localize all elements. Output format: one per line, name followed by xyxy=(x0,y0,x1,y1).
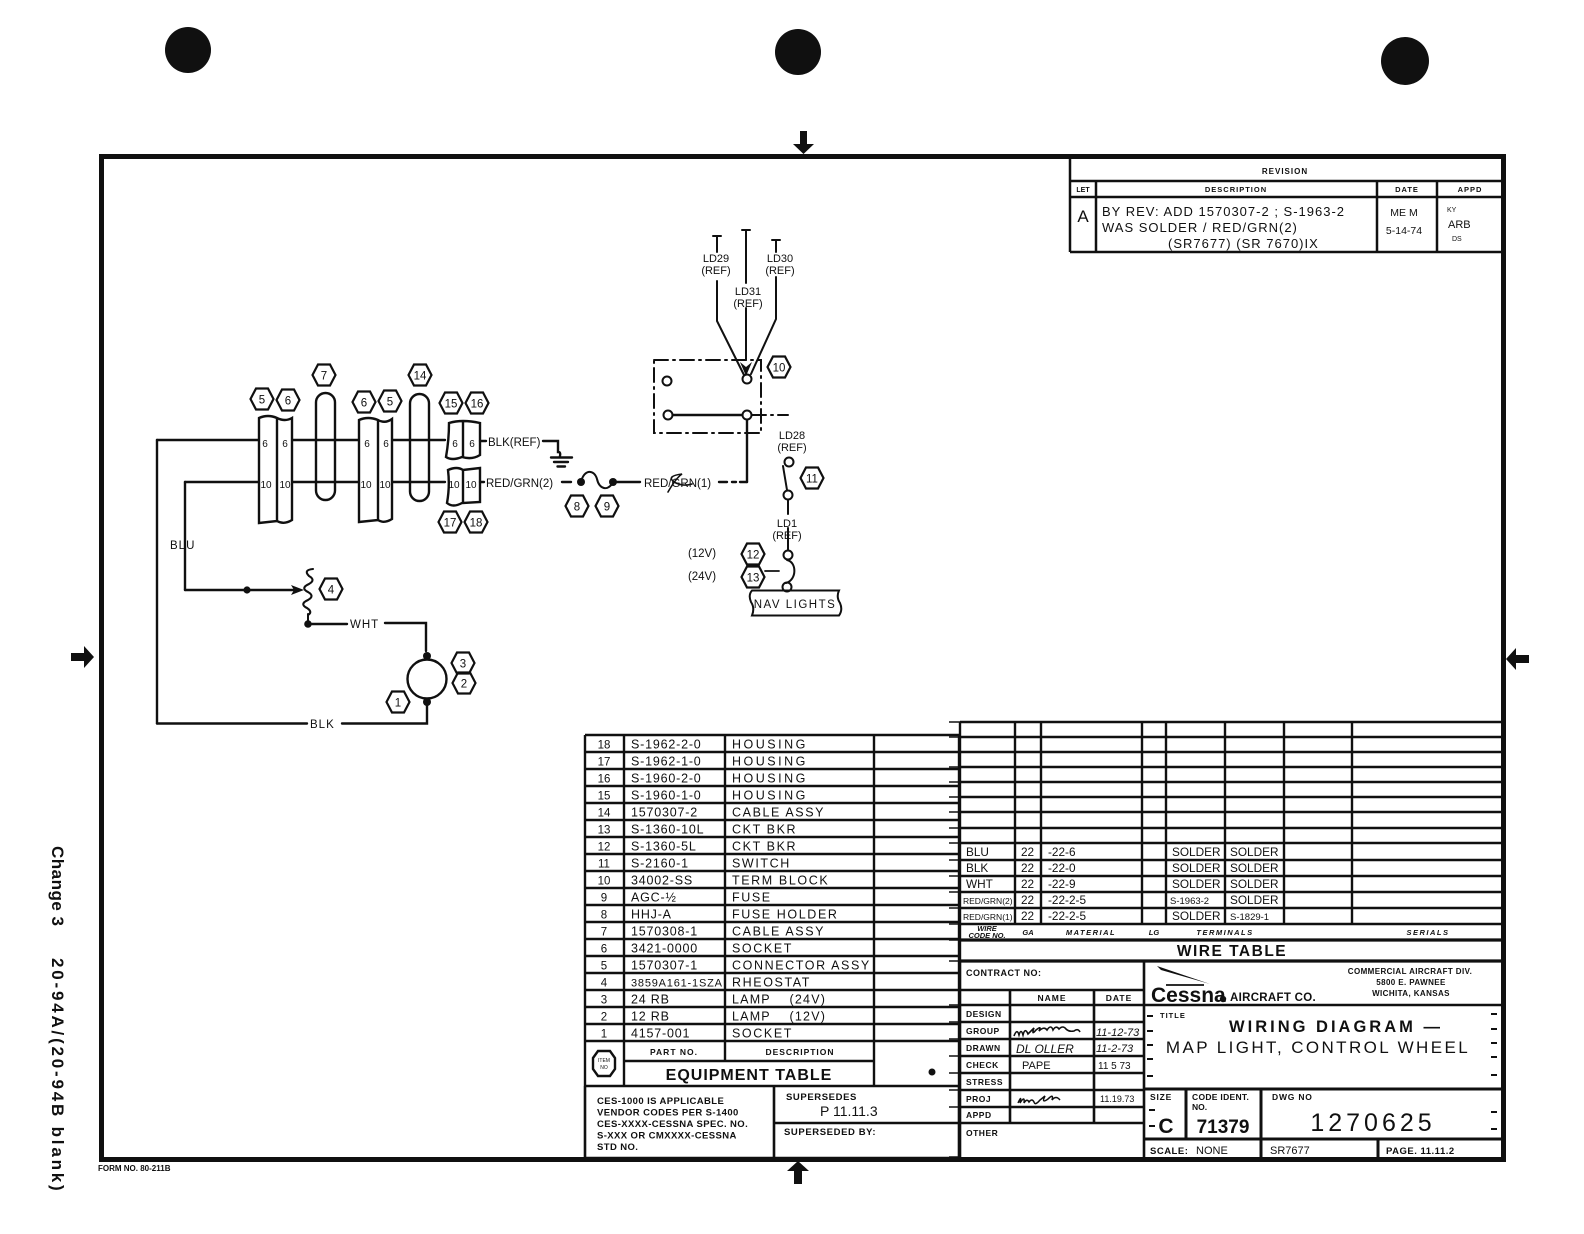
svg-text:-22-0: -22-0 xyxy=(1048,861,1076,875)
svg-text:VENDOR CODES PER S-1400: VENDOR CODES PER S-1400 xyxy=(597,1108,739,1119)
svg-text:SUPERSEDES: SUPERSEDES xyxy=(786,1092,857,1103)
svg-text:BY REV: ADD 1570307-2 ; S-1963: BY REV: ADD 1570307-2 ; S-1963-2 xyxy=(1102,204,1345,219)
svg-text:6: 6 xyxy=(452,439,458,450)
terminal block 10 (dash-dot outline) xyxy=(654,360,761,433)
svg-text:LD29: LD29 xyxy=(703,253,729,265)
svg-text:12: 12 xyxy=(598,842,611,854)
svg-text:12: 12 xyxy=(747,550,760,562)
svg-text:-22-6: -22-6 xyxy=(1048,845,1076,859)
wire up to terminal block xyxy=(746,420,748,482)
registration dot right xyxy=(1381,37,1429,85)
svg-text:7: 7 xyxy=(601,927,607,939)
svg-text:8: 8 xyxy=(574,502,580,514)
svg-text:7: 7 xyxy=(321,371,327,383)
svg-text:EQUIPMENT TABLE: EQUIPMENT TABLE xyxy=(666,1067,833,1084)
svg-text:11: 11 xyxy=(598,859,610,871)
svg-text:STRESS: STRESS xyxy=(966,1077,1003,1087)
revision table grid xyxy=(1070,157,1504,252)
splice 8/9 xyxy=(577,478,585,486)
svg-text:22: 22 xyxy=(1021,893,1034,907)
bottom alignment arrow xyxy=(787,1161,809,1184)
hex 16 xyxy=(466,393,489,414)
svg-text:APPD: APPD xyxy=(1458,185,1483,194)
svg-text:TERM BLOCK: TERM BLOCK xyxy=(732,874,829,888)
svg-text:DS: DS xyxy=(1452,236,1462,243)
svg-text:REVISION: REVISION xyxy=(1262,167,1308,176)
svg-text:SWITCH: SWITCH xyxy=(732,857,791,871)
wire LD29 xyxy=(713,236,744,375)
svg-text:LAMP (12V): LAMP (12V) xyxy=(732,1010,826,1024)
svg-text:DESIGN: DESIGN xyxy=(966,1009,1002,1019)
svg-text:PAPE: PAPE xyxy=(1022,1060,1051,1072)
svg-text:SOCKET: SOCKET xyxy=(732,942,793,956)
svg-text:NO: NO xyxy=(600,1065,608,1071)
svg-text:S-1962-1-0: S-1962-1-0 xyxy=(631,755,702,769)
svg-text:10: 10 xyxy=(260,480,272,491)
hex 17 xyxy=(439,512,462,533)
svg-text:SIZE: SIZE xyxy=(1150,1092,1172,1102)
group signature xyxy=(1014,1027,1080,1036)
wire BLU to rheostat xyxy=(185,589,295,591)
ground xyxy=(551,458,572,467)
svg-text:BLK: BLK xyxy=(310,719,335,731)
svg-text:6: 6 xyxy=(282,439,288,450)
svg-text:12 RB: 12 RB xyxy=(631,1010,670,1024)
svg-text:SERIALS: SERIALS xyxy=(1406,928,1449,937)
svg-text:22: 22 xyxy=(1021,909,1034,923)
hex 6b xyxy=(353,392,376,413)
svg-text:6: 6 xyxy=(601,944,607,956)
svg-text:CHECK: CHECK xyxy=(966,1060,999,1070)
svg-text:6: 6 xyxy=(285,396,291,408)
connector P1 bars (items 5/6) xyxy=(259,416,292,523)
hex 5 xyxy=(251,389,274,410)
cable assy 7 capsule xyxy=(316,393,335,500)
svg-text:4: 4 xyxy=(328,585,335,597)
correction scribble over RED/GRN(1) xyxy=(668,474,692,492)
wire table grid xyxy=(960,722,1504,961)
NAV LIGHTS box xyxy=(750,591,842,616)
svg-text:CKT BKR: CKT BKR xyxy=(732,823,797,837)
svg-text:AIRCRAFT CO.: AIRCRAFT CO. xyxy=(1230,992,1316,1004)
hex 6 xyxy=(277,390,300,411)
svg-text:MAP LIGHT, CONTROL WHEEL: MAP LIGHT, CONTROL WHEEL xyxy=(1166,1038,1470,1057)
svg-text:24 RB: 24 RB xyxy=(631,993,670,1007)
svg-text:6: 6 xyxy=(364,439,370,450)
svg-text:LG: LG xyxy=(1149,928,1160,937)
svg-text:11-12-73: 11-12-73 xyxy=(1096,1027,1140,1039)
hex 5b xyxy=(379,391,402,412)
wire WHT xyxy=(312,623,347,625)
wire left rail BLK return xyxy=(156,440,158,724)
svg-text:HOUSING: HOUSING xyxy=(732,755,808,769)
hex 15 xyxy=(440,393,463,414)
svg-text:RED/GRN(1): RED/GRN(1) xyxy=(963,912,1013,922)
arrowhead at terminal xyxy=(740,362,752,376)
svg-text:MATERIAL: MATERIAL xyxy=(1066,928,1116,937)
svg-text:CKT BKR: CKT BKR xyxy=(732,840,797,854)
svg-text:GROUP: GROUP xyxy=(966,1026,1000,1036)
svg-text:ITEM: ITEM xyxy=(598,1058,610,1064)
svg-text:17: 17 xyxy=(444,518,457,530)
svg-text:WHT: WHT xyxy=(966,877,993,891)
svg-text:22: 22 xyxy=(1021,877,1034,891)
svg-text:1570307-2: 1570307-2 xyxy=(631,806,698,820)
svg-text:ARB: ARB xyxy=(1448,219,1471,231)
svg-text:RED/GRN(2): RED/GRN(2) xyxy=(486,478,553,490)
svg-text:LD28: LD28 xyxy=(779,430,805,442)
svg-text:18: 18 xyxy=(598,740,611,752)
svg-text:CODE IDENT.: CODE IDENT. xyxy=(1192,1092,1249,1102)
svg-text:1: 1 xyxy=(395,698,401,710)
equipment table grid xyxy=(585,735,959,1086)
svg-text:S-1829-1: S-1829-1 xyxy=(1230,912,1269,923)
svg-text:S-1962-2-0: S-1962-2-0 xyxy=(631,738,702,752)
svg-text:SOLDER: SOLDER xyxy=(1172,861,1221,875)
svg-text:HHJ-A: HHJ-A xyxy=(631,908,672,922)
svg-text:10: 10 xyxy=(598,876,611,888)
svg-text:LD31: LD31 xyxy=(735,286,761,298)
hex 11 xyxy=(801,468,824,489)
svg-text:S-2160-1: S-2160-1 xyxy=(631,857,689,871)
svg-text:10: 10 xyxy=(448,480,460,491)
svg-text:DESCRIPTION: DESCRIPTION xyxy=(765,1047,834,1057)
hex 7 xyxy=(313,365,336,386)
svg-text:OTHER: OTHER xyxy=(966,1128,998,1138)
proj signature xyxy=(1018,1096,1060,1104)
svg-text:TITLE: TITLE xyxy=(1160,1011,1186,1020)
EQUIPMENT TABLE xyxy=(585,735,959,1158)
junction dot xyxy=(243,586,250,593)
svg-text:RED/GRN(2): RED/GRN(2) xyxy=(963,896,1013,906)
svg-text:SOLDER: SOLDER xyxy=(1172,909,1221,923)
svg-text:SOLDER: SOLDER xyxy=(1230,877,1279,891)
wire pin10 row xyxy=(185,481,445,483)
svg-text:S-1360-5L: S-1360-5L xyxy=(631,840,697,854)
svg-text:-22-2-5: -22-2-5 xyxy=(1048,909,1086,923)
svg-text:9: 9 xyxy=(601,893,607,905)
wire to RED/GRN(1) xyxy=(617,481,640,483)
wire BLU vertical xyxy=(184,482,186,590)
svg-text:1570308-1: 1570308-1 xyxy=(631,925,698,939)
svg-text:(24V): (24V) xyxy=(688,571,716,583)
svg-text:LET: LET xyxy=(1076,187,1090,194)
svg-text:16: 16 xyxy=(598,774,611,786)
svg-text:22: 22 xyxy=(1021,861,1034,875)
housing 15/16 (pin 6) xyxy=(446,421,480,459)
svg-text:10: 10 xyxy=(360,480,372,491)
svg-text:BLK: BLK xyxy=(966,861,988,875)
svg-text:13: 13 xyxy=(598,825,611,837)
svg-text:DL OLLER: DL OLLER xyxy=(1016,1042,1074,1056)
svg-text:SOLDER: SOLDER xyxy=(1172,845,1221,859)
svg-text:C: C xyxy=(1158,1115,1173,1138)
svg-text:PART NO.: PART NO. xyxy=(650,1047,698,1057)
signoff labels xyxy=(966,1009,1003,1138)
vendor notes box xyxy=(585,1086,959,1158)
svg-text:SUPERSEDED BY:: SUPERSEDED BY: xyxy=(784,1127,876,1138)
svg-text:6: 6 xyxy=(383,439,389,450)
svg-text:WAS SOLDER / RED/GRN(2): WAS SOLDER / RED/GRN(2) xyxy=(1102,220,1298,235)
svg-text:(REF): (REF) xyxy=(777,442,806,454)
fuse 12/13 xyxy=(784,551,793,560)
wire LD30 xyxy=(751,240,780,374)
svg-text:5: 5 xyxy=(601,961,607,973)
svg-text:NAME: NAME xyxy=(1037,993,1066,1003)
hex13 pointer xyxy=(765,570,779,572)
switch lever xyxy=(783,466,787,490)
svg-text:COMMERCIAL AIRCRAFT DIV.: COMMERCIAL AIRCRAFT DIV. xyxy=(1348,967,1472,976)
svg-text:6: 6 xyxy=(469,439,475,450)
svg-text:S-1963-2: S-1963-2 xyxy=(1170,896,1209,907)
hex 13 xyxy=(742,567,765,588)
svg-text:HOUSING: HOUSING xyxy=(732,738,808,752)
svg-text:BLU: BLU xyxy=(170,540,195,552)
svg-text:WIRING DIAGRAM —: WIRING DIAGRAM — xyxy=(1229,1018,1443,1036)
svg-text:AGC-½: AGC-½ xyxy=(631,891,677,905)
svg-text:3421-0000: 3421-0000 xyxy=(631,942,698,956)
svg-text:5800 E. PAWNEE: 5800 E. PAWNEE xyxy=(1376,978,1446,987)
svg-text:8: 8 xyxy=(601,910,607,922)
svg-text:PAGE. 11.11.2: PAGE. 11.11.2 xyxy=(1386,1146,1455,1157)
svg-text:DWG NO: DWG NO xyxy=(1272,1092,1313,1102)
lamp 1/2/3 xyxy=(408,660,447,699)
svg-text:CODE NO.: CODE NO. xyxy=(968,931,1005,940)
terminal jumper xyxy=(673,414,742,416)
hex 1 xyxy=(387,692,410,713)
svg-text:SCALE:: SCALE: xyxy=(1150,1146,1188,1157)
cessna logo xyxy=(1151,966,1316,1007)
svg-text:CONNECTOR ASSY: CONNECTOR ASSY xyxy=(732,959,871,973)
wire below switch xyxy=(787,500,789,514)
svg-text:CABLE ASSY: CABLE ASSY xyxy=(732,806,825,820)
svg-text:11: 11 xyxy=(806,474,818,486)
svg-text:SOLDER: SOLDER xyxy=(1230,845,1279,859)
equipment rows text xyxy=(598,738,871,1041)
svg-text:CES-XXXX-CESSNA SPEC. NO.: CES-XXXX-CESSNA SPEC. NO. xyxy=(597,1119,748,1130)
svg-text:A: A xyxy=(1077,207,1089,226)
svg-text:CES-1000 IS APPLICABLE: CES-1000 IS APPLICABLE xyxy=(597,1096,724,1107)
svg-text:NONE: NONE xyxy=(1196,1145,1228,1157)
label BLK(REF) xyxy=(480,440,486,442)
svg-text:18: 18 xyxy=(470,518,483,530)
junction dot wiper out xyxy=(304,620,312,628)
svg-text:DRAWN: DRAWN xyxy=(966,1043,1001,1053)
TITLE BLOCK xyxy=(960,961,1504,1159)
svg-text:10: 10 xyxy=(279,480,291,491)
terminal block posts xyxy=(663,377,672,386)
svg-text:FUSE HOLDER: FUSE HOLDER xyxy=(732,908,839,922)
svg-text:S-XXX OR CMXXXX-CESSNA: S-XXX OR CMXXXX-CESSNA xyxy=(597,1131,737,1142)
svg-text:11-2-73: 11-2-73 xyxy=(1096,1043,1134,1055)
svg-text:RHEOSTAT: RHEOSTAT xyxy=(732,976,811,990)
lamp bottom dot xyxy=(423,698,431,706)
switch 11 xyxy=(785,458,794,467)
svg-text:NAV LIGHTS: NAV LIGHTS xyxy=(754,599,837,611)
title box edge ticks xyxy=(1147,1014,1497,1129)
svg-text:4: 4 xyxy=(601,978,608,990)
svg-text:1570307-1: 1570307-1 xyxy=(631,959,698,973)
svg-text:LD30: LD30 xyxy=(767,253,793,265)
svg-text:Change 3: Change 3 xyxy=(48,846,67,927)
svg-text:10: 10 xyxy=(379,480,391,491)
svg-text:SOLDER: SOLDER xyxy=(1230,861,1279,875)
wire table column headers xyxy=(968,924,1449,940)
svg-text:20-94A/(20-94B blank): 20-94A/(20-94B blank) xyxy=(48,958,67,1193)
svg-text:APPD: APPD xyxy=(966,1110,992,1120)
registration dot left xyxy=(165,27,211,73)
svg-text:22: 22 xyxy=(1021,845,1034,859)
svg-text:P 11.11.3: P 11.11.3 xyxy=(820,1103,878,1119)
svg-text:(REF): (REF) xyxy=(733,298,762,310)
svg-text:BLK(REF): BLK(REF) xyxy=(488,437,541,449)
registration dot middle xyxy=(775,29,821,75)
cable assy 14 capsule xyxy=(410,394,429,501)
rheostat bottom lead xyxy=(307,614,309,622)
svg-text:S-1960-1-0: S-1960-1-0 xyxy=(631,789,702,803)
main border frame xyxy=(102,157,1504,1160)
svg-text:11 5 73: 11 5 73 xyxy=(1098,1061,1131,1072)
svg-text:STD NO.: STD NO. xyxy=(597,1142,638,1153)
svg-text:2: 2 xyxy=(461,679,467,691)
svg-text:NO.: NO. xyxy=(1192,1102,1207,1112)
svg-text:DATE: DATE xyxy=(1106,993,1133,1003)
svg-text:1270625: 1270625 xyxy=(1310,1109,1435,1137)
svg-text:(SR7677) (SR 7670)IX: (SR7677) (SR 7670)IX xyxy=(1168,236,1319,251)
svg-text:5: 5 xyxy=(387,397,393,409)
svg-text:10: 10 xyxy=(465,480,477,491)
svg-text:ME M: ME M xyxy=(1390,207,1417,219)
svg-text:3: 3 xyxy=(601,995,607,1007)
svg-text:3859A161-1SZA: 3859A161-1SZA xyxy=(631,978,723,990)
svg-text:6: 6 xyxy=(361,398,367,410)
top alignment arrow xyxy=(793,131,814,154)
svg-text:FORM NO. 80-211B: FORM NO. 80-211B xyxy=(98,1164,171,1173)
svg-text:KY: KY xyxy=(1447,207,1457,214)
wire pin6 row xyxy=(157,439,445,441)
svg-text:BLU: BLU xyxy=(966,845,989,859)
bullet in right column xyxy=(929,1069,936,1076)
svg-text:WHT: WHT xyxy=(350,619,379,631)
svg-text:71379: 71379 xyxy=(1197,1117,1250,1138)
rheostat 4 zigzag xyxy=(303,569,313,615)
svg-text:S-1360-10L: S-1360-10L xyxy=(631,823,704,837)
svg-text:SR7677: SR7677 xyxy=(1270,1145,1310,1157)
svg-text:CABLE ASSY: CABLE ASSY xyxy=(732,925,825,939)
svg-text:(REF): (REF) xyxy=(765,265,794,277)
SCHEMATIC xyxy=(157,230,841,731)
svg-text:HOUSING: HOUSING xyxy=(732,772,808,786)
svg-text:GA: GA xyxy=(1022,928,1033,937)
svg-text:13: 13 xyxy=(747,573,760,585)
svg-text:14: 14 xyxy=(414,371,427,383)
svg-text:(REF): (REF) xyxy=(701,265,730,277)
hex 4 xyxy=(320,579,343,600)
hex 3 xyxy=(452,653,475,674)
svg-text:LAMP (24V): LAMP (24V) xyxy=(732,993,826,1007)
svg-text:Cessna: Cessna xyxy=(1151,984,1226,1007)
svg-text:SOCKET: SOCKET xyxy=(732,1027,793,1041)
hex 2 xyxy=(453,673,476,694)
svg-text:10: 10 xyxy=(773,363,786,375)
svg-text:5: 5 xyxy=(259,395,265,407)
svg-text:TERMINALS: TERMINALS xyxy=(1196,928,1253,937)
svg-text:(12V): (12V) xyxy=(688,548,716,560)
svg-text:DESCRIPTION: DESCRIPTION xyxy=(1205,185,1267,194)
svg-text:11.19.73: 11.19.73 xyxy=(1100,1094,1134,1104)
left alignment arrow xyxy=(71,646,94,668)
svg-text:PROJ: PROJ xyxy=(966,1094,991,1104)
wire table left edge ticks xyxy=(949,722,960,1157)
WIRE TABLE xyxy=(949,722,1504,1157)
svg-text:DATE: DATE xyxy=(1395,185,1419,194)
svg-text:CONTRACT NO:: CONTRACT NO: xyxy=(966,968,1042,978)
svg-text:9: 9 xyxy=(604,502,610,514)
svg-text:3: 3 xyxy=(460,659,466,671)
hex 18 xyxy=(465,512,488,533)
hex 9 xyxy=(596,496,619,517)
wire LD31 xyxy=(742,230,750,360)
svg-text:15: 15 xyxy=(598,791,611,803)
hex 8 xyxy=(566,496,589,517)
svg-text:WICHITA, KANSAS: WICHITA, KANSAS xyxy=(1372,989,1450,998)
svg-text:S-1960-2-0: S-1960-2-0 xyxy=(631,772,702,786)
svg-text:17: 17 xyxy=(598,757,611,769)
title block grid xyxy=(960,961,1504,1159)
svg-text:4157-001: 4157-001 xyxy=(631,1027,690,1041)
svg-text:6: 6 xyxy=(262,439,268,450)
svg-text:HOUSING: HOUSING xyxy=(732,789,808,803)
svg-text:16: 16 xyxy=(471,399,484,411)
svg-text:SOLDER: SOLDER xyxy=(1230,893,1279,907)
svg-text:2: 2 xyxy=(601,1012,607,1024)
svg-text:34002-SS: 34002-SS xyxy=(631,874,693,888)
wiper arrow xyxy=(291,585,304,595)
connector P2 bars (items 6/5) xyxy=(359,418,392,522)
hex 10 xyxy=(768,357,791,378)
housing 17/18 (pin 10) xyxy=(447,468,480,506)
svg-text:SOLDER: SOLDER xyxy=(1172,877,1221,891)
ground lead xyxy=(543,441,560,456)
wire rows xyxy=(963,845,1279,923)
item no icon xyxy=(593,1051,615,1076)
hex 12 xyxy=(742,544,765,565)
wire BLK xyxy=(342,706,427,724)
svg-text:5-14-74: 5-14-74 xyxy=(1386,225,1422,237)
dash-dot stub right of block xyxy=(752,414,788,416)
lamp socket top dot xyxy=(423,652,431,660)
svg-text:1: 1 xyxy=(601,1029,607,1041)
label RED/GRN(2) xyxy=(480,481,484,483)
svg-text:14: 14 xyxy=(598,808,611,820)
svg-text:-22-2-5: -22-2-5 xyxy=(1048,893,1086,907)
svg-text:15: 15 xyxy=(445,399,458,411)
svg-text:WIRE TABLE: WIRE TABLE xyxy=(1177,943,1287,960)
right alignment arrow xyxy=(1506,648,1529,670)
REVISION TABLE xyxy=(1070,157,1504,252)
svg-text:FUSE: FUSE xyxy=(732,891,772,905)
svg-text:-22-9: -22-9 xyxy=(1048,877,1076,891)
hex 14 xyxy=(409,365,432,386)
